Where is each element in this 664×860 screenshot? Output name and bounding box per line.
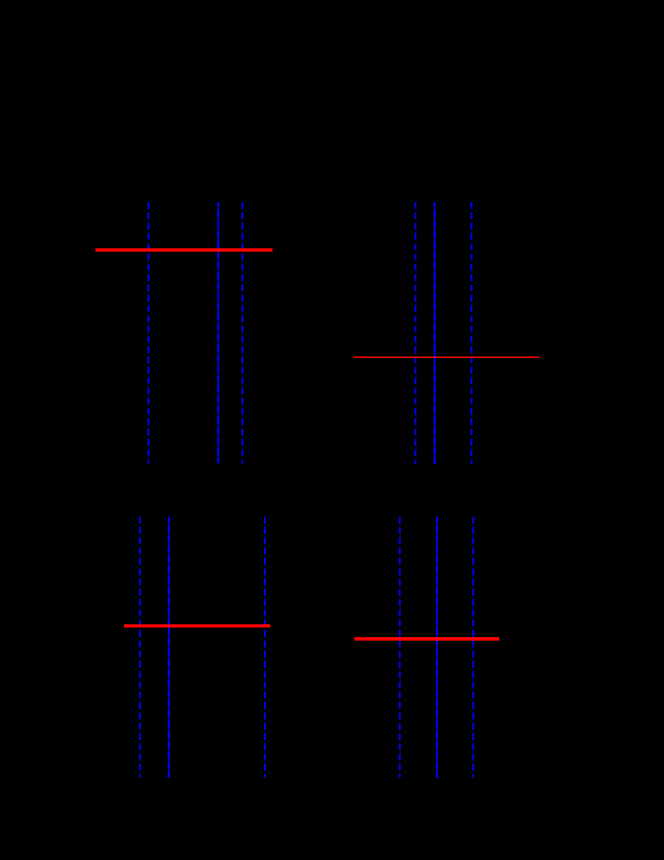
panel 1 mean dashed vline (overlapping median) (217, 202, 219, 464)
panel 4 (bottom-right) lower-bound dashed vline (399, 517, 401, 778)
panel 3 mean dashed vline (overlapping median) (168, 517, 170, 778)
panel 4 mean dashed vline (overlapping median) (436, 517, 438, 778)
panel 3 median solid vline (168, 517, 170, 778)
panel 2 red horizontal line (354, 356, 540, 358)
panel 3 red horizontal line (124, 624, 270, 627)
panel 4 upper-bound dashed vline (472, 517, 474, 778)
panel 1 red horizontal line (95, 248, 272, 251)
panel 2 upper-bound dashed vline (471, 202, 473, 464)
panel 4 median solid vline (436, 517, 438, 778)
panel 3 (bottom-left) lower-bound dashed vline (139, 517, 141, 778)
panel 3 upper-bound dashed vline (264, 517, 266, 778)
panel 1 upper-bound dashed vline (242, 202, 244, 464)
panel 1 median solid vline (217, 202, 219, 464)
panel 2 mean dashed vline (overlapping median) (434, 202, 436, 464)
panel 2 median solid vline (434, 202, 436, 464)
panel 1 (top-left) lower-bound dashed vline (148, 202, 150, 464)
panel 4 red horizontal line (354, 637, 499, 641)
panel 2 (top-right) lower-bound dashed vline (415, 202, 417, 464)
